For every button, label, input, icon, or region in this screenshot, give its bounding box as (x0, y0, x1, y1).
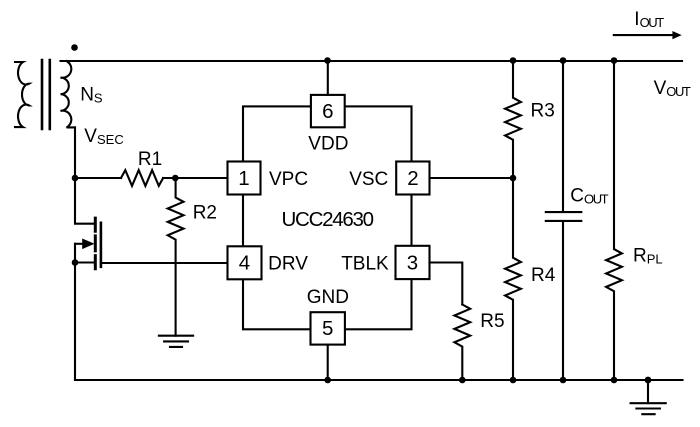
node ground bottom rail (645, 377, 652, 384)
node R3 top rail (510, 57, 517, 64)
svg-text:4: 4 (239, 252, 250, 275)
svg-text:NS: NS (80, 85, 103, 106)
node R4 bottom rail (510, 377, 517, 384)
capacitor COUT (546, 61, 582, 381)
transistor Q1 body arrow (75, 243, 83, 245)
wire pin 5 to bottom rail (327, 345, 329, 380)
svg-text:R4: R4 (531, 265, 556, 286)
node GND bottom rail (324, 377, 331, 384)
svg-text:VSEC: VSEC (84, 126, 123, 147)
transistor Q1 source lead (75, 244, 94, 263)
svg-text:VPC: VPC (269, 169, 308, 190)
node RPL bottom rail (611, 377, 618, 384)
svg-text:R3: R3 (531, 101, 555, 122)
wire VSEC to R1 (75, 177, 121, 179)
node source junction (72, 259, 79, 266)
svg-text:VSC: VSC (349, 169, 388, 190)
svg-text:R2: R2 (193, 203, 217, 224)
wire drain lead (75, 178, 94, 224)
pin box 6 (311, 95, 345, 127)
resistor R3 (505, 61, 521, 179)
transistor Q1 channel bars (94, 218, 97, 269)
svg-text:R1: R1 (138, 149, 162, 170)
node COUT bottom rail (560, 377, 567, 384)
svg-text:2: 2 (407, 167, 418, 190)
resistor R2 (168, 178, 184, 336)
node phase dot (71, 44, 78, 51)
resistor R1 (121, 170, 163, 186)
node VSEC junction (72, 175, 79, 182)
transformer T1 primary winding (15, 62, 29, 127)
resistor R4 (505, 178, 521, 380)
resistor RPL (606, 61, 622, 381)
pin box 1 (228, 162, 261, 195)
svg-text:COUT: COUT (570, 186, 608, 207)
svg-text:TBLK: TBLK (341, 254, 389, 275)
ground right (631, 380, 666, 414)
ground under R2 (159, 336, 193, 347)
svg-text:5: 5 (322, 317, 333, 340)
node RPL top rail (611, 57, 618, 64)
svg-text:R5: R5 (480, 311, 504, 332)
svg-text:1: 1 (238, 167, 249, 190)
node R1 R2 junction (172, 175, 179, 182)
svg-text:UCC24630: UCC24630 (282, 208, 375, 231)
pin box 5 (311, 312, 345, 344)
IC U1 body (243, 106, 412, 329)
node COUT top rail (560, 57, 567, 64)
wire pin 3 TBLK to R5 (430, 263, 463, 305)
svg-text:RPL: RPL (633, 245, 663, 266)
svg-text:6: 6 (322, 100, 333, 123)
svg-text:VOUT: VOUT (654, 78, 691, 99)
wire source to bottom rail (74, 263, 76, 381)
node VSC R3 R4 (510, 175, 517, 182)
transformer T1 core (42, 60, 50, 129)
wire VSEC vertical (74, 127, 76, 178)
transformer T1 secondary winding NS (61, 61, 76, 127)
arrow IOUT (614, 34, 673, 36)
node VDD rail (324, 57, 331, 64)
wire R1 to pin 1 (163, 177, 227, 179)
svg-text:VDD: VDD (308, 134, 348, 155)
resistor R5 (454, 305, 470, 381)
wire gate to pin 4 DRV (101, 262, 228, 264)
pin box 3 (396, 246, 430, 279)
pin box 2 (396, 162, 429, 195)
node R5 bottom rail (459, 377, 466, 384)
wire top rail (61, 60, 683, 62)
wire pin 6 to VDD rail (327, 61, 329, 95)
pin box 4 (228, 246, 262, 279)
transistor Q1 gate bar (100, 223, 103, 267)
svg-text:GND: GND (307, 287, 349, 308)
wire bottom rail (75, 379, 683, 381)
svg-text:DRV: DRV (268, 254, 308, 275)
svg-text:3: 3 (407, 252, 418, 275)
wire pin 2 VSC to R3 node (430, 177, 514, 179)
svg-text:IOUT: IOUT (634, 9, 664, 30)
